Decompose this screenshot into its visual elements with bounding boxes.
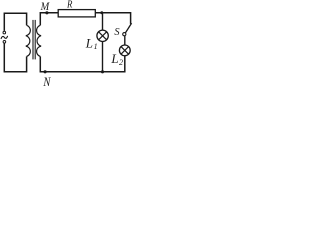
- wire secondary bottom: coil bottom down, along bottom, up to lamp L2: [40, 56, 125, 72]
- transformer core line 2: [34, 20, 36, 60]
- svg-text:N: N: [43, 74, 52, 88]
- resistor R body: [58, 10, 95, 17]
- node M dot: [45, 11, 48, 14]
- svg-text:S: S: [114, 27, 120, 38]
- svg-text:M: M: [40, 1, 51, 13]
- switch S pivot terminal: [123, 33, 126, 36]
- AC source tilde symbol: [1, 36, 8, 39]
- svg-text:L: L: [85, 36, 93, 50]
- transformer T primary winding: [26, 25, 31, 56]
- label L1: [85, 36, 98, 51]
- AC source terminal (lower): [3, 41, 6, 44]
- transformer core line 1: [32, 20, 34, 60]
- node N dot: [44, 70, 47, 73]
- AC source terminal (upper): [3, 31, 6, 34]
- wire L1 branch lower: [102, 42, 104, 72]
- wire L1 branch upper: [102, 13, 104, 30]
- switch S blade: [125, 23, 131, 33]
- lamp L1: [97, 30, 108, 41]
- wire from switch down to lamp L2: [124, 36, 126, 45]
- wire primary loop (top, left, bottom sides): [4, 13, 26, 72]
- svg-text:R: R: [66, 0, 73, 10]
- junction dot below L1: [101, 70, 104, 73]
- svg-text:1: 1: [94, 42, 98, 51]
- label L2: [110, 52, 123, 67]
- transformer T secondary winding: [37, 25, 42, 56]
- wire secondary top: coil top up to M corner, across to right corner, down to switch: [40, 13, 130, 25]
- svg-text:L: L: [110, 52, 118, 66]
- junction dot above L1: [100, 11, 103, 14]
- svg-text:2: 2: [119, 58, 123, 67]
- lamp L2: [119, 45, 130, 56]
